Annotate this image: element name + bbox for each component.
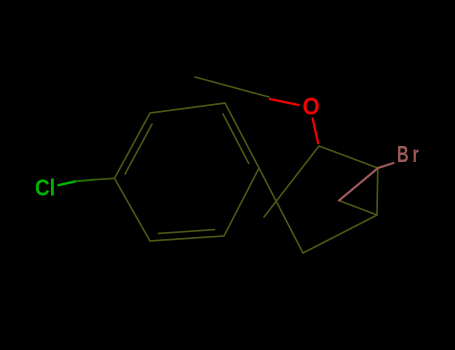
bond C2-Cf bbox=[319, 146, 378, 168]
bond O-C2 (ether, red) bbox=[313, 118, 319, 143]
bond Ca-Cb (top chain to ether) bbox=[195, 77, 269, 97]
bond C-Br (rosy) bbox=[339, 163, 394, 201]
double bond inner line C3=C4 bbox=[223, 114, 249, 163]
bond C3a-Cd (ring attachment, crossing) bbox=[259, 168, 303, 253]
benzene ring (4-chlorophenyl) outline bbox=[115, 103, 260, 241]
bond Cv-Ce bbox=[339, 201, 377, 216]
svg-text:Br: Br bbox=[397, 142, 423, 167]
bond C-Cl (bright green stub) bbox=[59, 178, 115, 185]
svg-text:Cl: Cl bbox=[35, 174, 55, 201]
double bond inner line C1=C2 bbox=[125, 124, 152, 174]
double bond inner line C5=C6 bbox=[158, 230, 214, 234]
bond Ce-Cd bbox=[303, 215, 377, 253]
bond C2-Cg (crossing bridge) bbox=[264, 146, 319, 217]
svg-text:O: O bbox=[303, 93, 320, 120]
bond Cf-Ce bbox=[376, 168, 379, 215]
bond Cb-O (ether, red) bbox=[270, 99, 299, 105]
